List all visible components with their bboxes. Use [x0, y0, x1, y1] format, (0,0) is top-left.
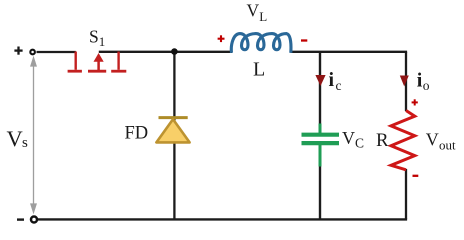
svg-text:c: c — [336, 78, 342, 93]
plus sign above resistor (red) — [412, 99, 418, 105]
svg-text:V: V — [247, 1, 260, 21]
capacitor C (green) — [302, 124, 340, 167]
current arrow io (dark red) — [400, 76, 409, 87]
wire capacitor branch upper — [319, 52, 321, 125]
wire right vertical lower (load branch) — [405, 169, 407, 219]
wire bottom rail — [38, 218, 408, 220]
node junction dot at switch/diode — [171, 48, 178, 55]
terminal - (bottom-left open circle) — [31, 217, 37, 223]
diode FD (yellow) — [159, 116, 188, 119]
svg-text:o: o — [423, 78, 430, 93]
svg-text:V: V — [7, 126, 23, 151]
current arrow ic (dark red) — [315, 75, 325, 86]
wire diode branch vertical — [173, 52, 175, 220]
plus sign at top-left terminal — [14, 47, 22, 55]
svg-text:s: s — [22, 135, 28, 151]
svg-text:R: R — [376, 130, 389, 151]
minus sign at bottom-left terminal — [17, 218, 24, 220]
wire top-left from + terminal to switch — [37, 51, 76, 53]
svg-text:V: V — [342, 128, 355, 148]
svg-text:L: L — [253, 59, 265, 81]
svg-text:out: out — [439, 137, 456, 152]
switch S1 right plate — [117, 52, 119, 70]
wire capacitor branch lower — [319, 166, 321, 219]
switch S1 left plate — [74, 52, 76, 70]
svg-text:FD: FD — [125, 124, 149, 144]
wire top-right from inductor to right corner — [291, 51, 408, 53]
minus sign below resistor (red) — [413, 175, 419, 177]
wire top-mid from switch to inductor — [99, 51, 232, 53]
svg-text:L: L — [259, 9, 267, 24]
source voltage arrow (gray double-headed) — [31, 58, 36, 212]
svg-text:V: V — [426, 130, 439, 150]
terminal + (top-left open circle) — [30, 50, 35, 55]
inductor L (blue coil) — [231, 34, 291, 53]
resistor R (red zigzag) — [391, 111, 415, 170]
svg-text:1: 1 — [99, 34, 106, 49]
svg-text:i: i — [329, 69, 335, 91]
plus sign left of inductor (red) — [218, 35, 225, 42]
minus sign right of inductor (red) — [301, 39, 307, 41]
svg-text:C: C — [355, 136, 364, 151]
switch S1 arrow (red, pointing up) — [94, 53, 104, 70]
svg-text:S: S — [89, 26, 99, 46]
switch S1 arrow foot — [88, 70, 106, 73]
switch S1 (red) — [68, 52, 127, 72]
wire right vertical upper (load branch) — [405, 52, 407, 111]
